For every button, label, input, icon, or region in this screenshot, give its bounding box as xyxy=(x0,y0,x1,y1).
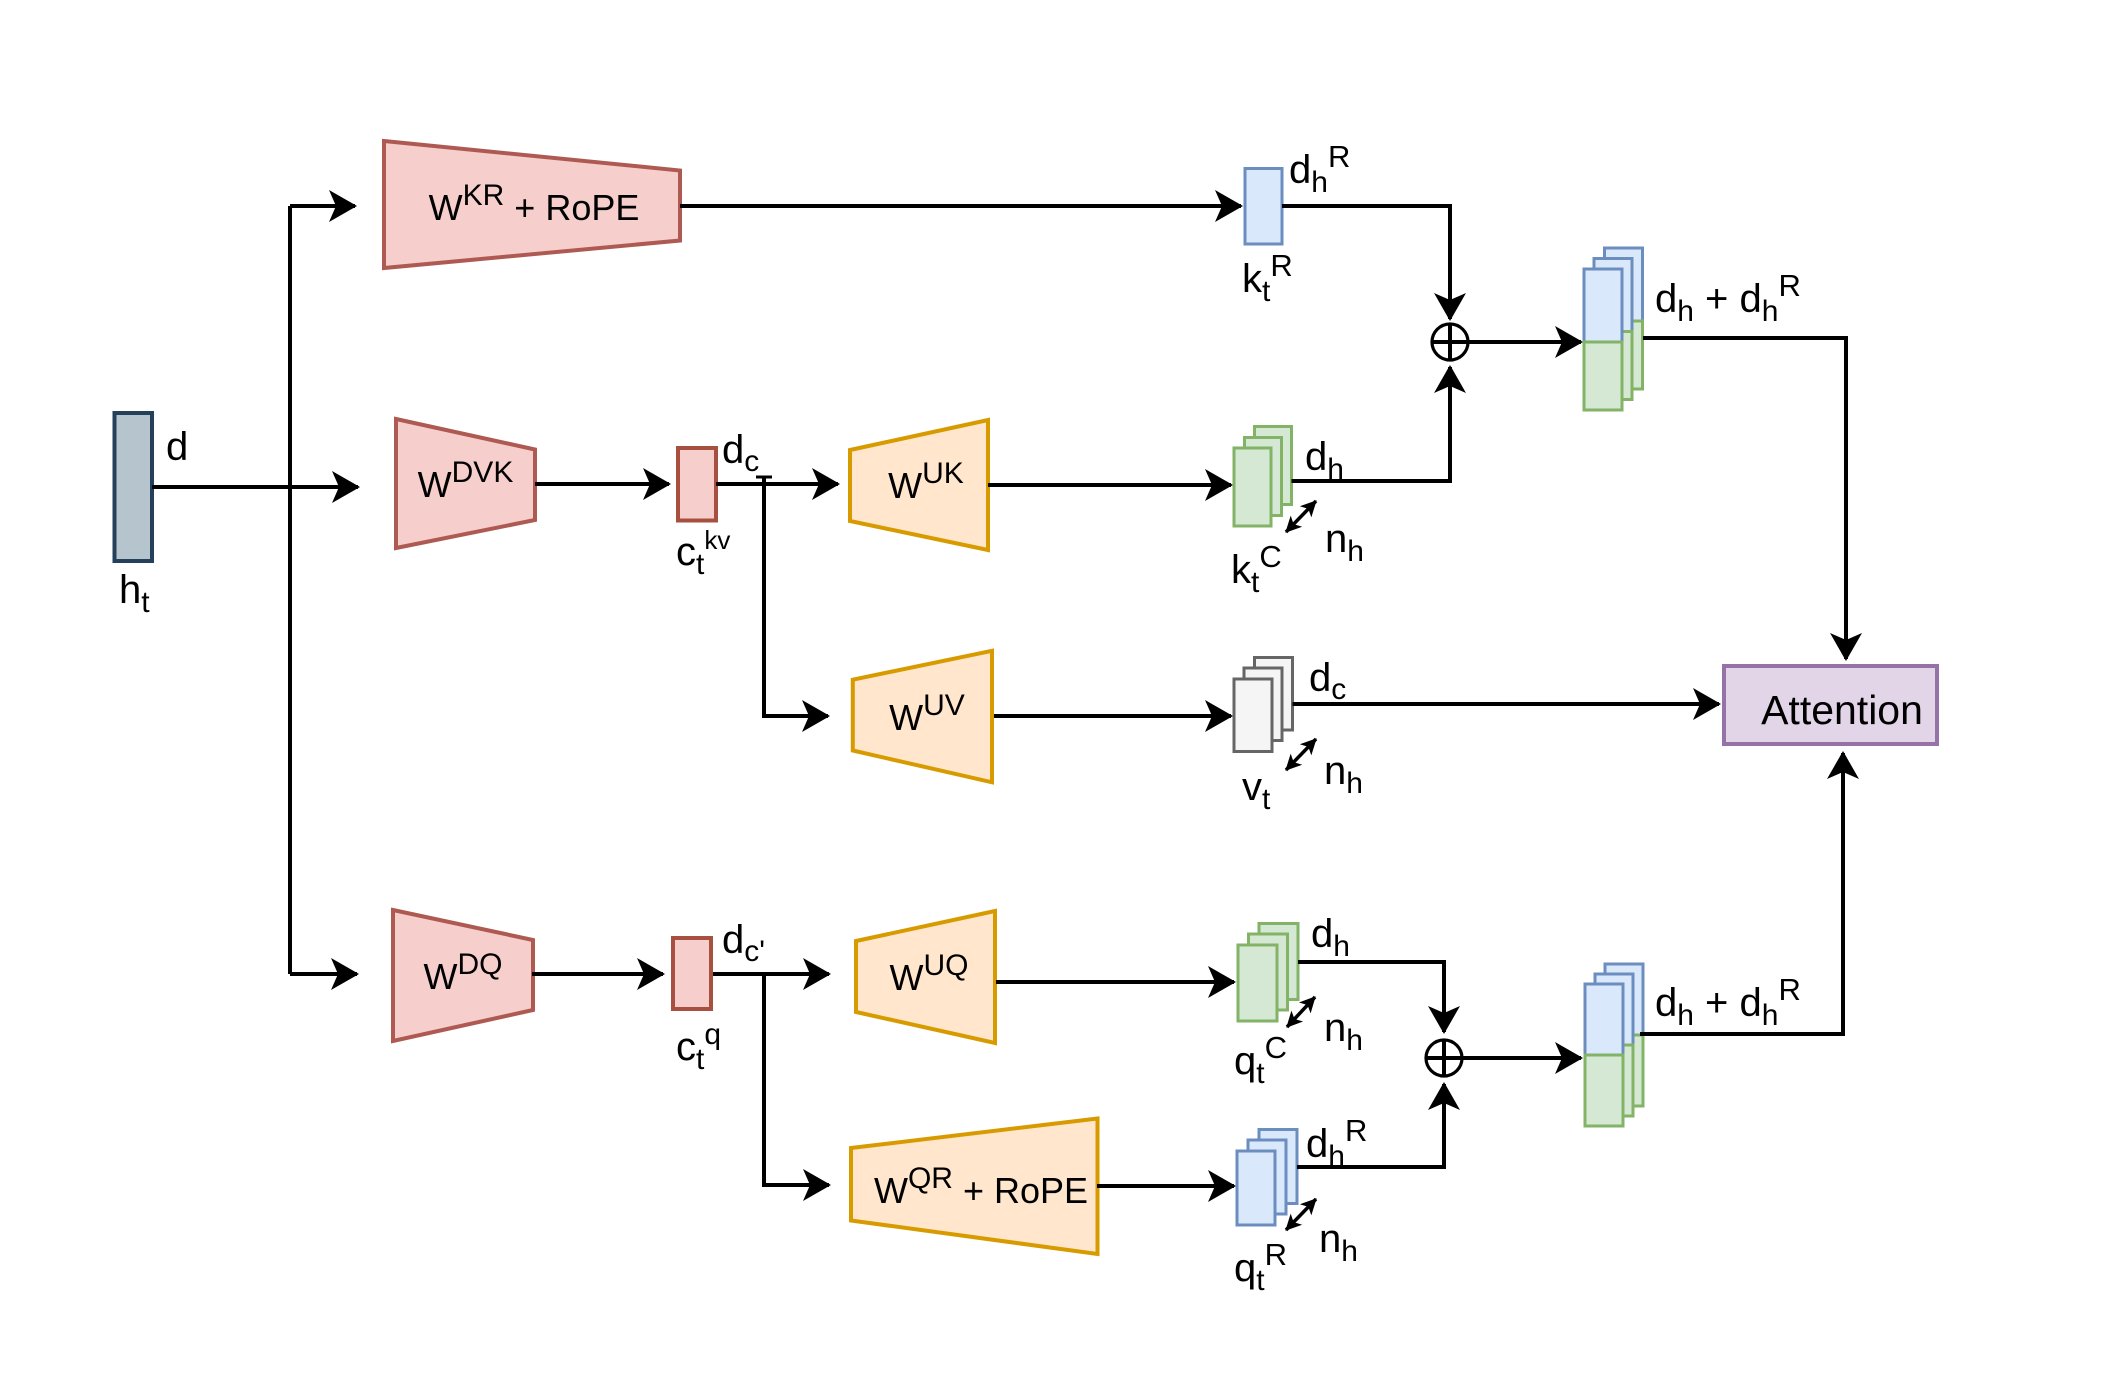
svg-text:dc: dc xyxy=(1309,656,1346,706)
svg-text:nh: nh xyxy=(1325,517,1364,568)
svg-text:WQR + RoPE: WQR + RoPE xyxy=(874,1162,1088,1211)
wire branch to W_DQ xyxy=(290,972,357,976)
block W_DVK xyxy=(396,419,535,548)
wire c_t_q to W_UQ xyxy=(711,972,829,976)
vector c_t_q xyxy=(673,938,711,1009)
svg-text:nh: nh xyxy=(1324,1006,1363,1057)
wire adder to query stack xyxy=(1462,1056,1582,1060)
svg-text:dc': dc' xyxy=(722,918,765,968)
stack concat queries (blue+green) xyxy=(1585,964,1643,1126)
svg-text:ht: ht xyxy=(119,568,150,619)
vector c_t_kv xyxy=(678,448,716,521)
block W_UQ xyxy=(856,911,995,1043)
wire W_DQ to c_t_q xyxy=(532,972,663,976)
svg-text:qtC: qtC xyxy=(1234,1030,1287,1090)
wire c_t_kv branch down to W_UV xyxy=(764,477,828,716)
wire c_t_q branch down to W_QR xyxy=(764,974,829,1185)
vector k_t_R xyxy=(1245,169,1282,245)
block W_QR + RoPE xyxy=(851,1119,1098,1255)
stack k_t_C (green) xyxy=(1234,427,1292,527)
adder (queries) xyxy=(1426,1040,1462,1076)
wire q_t_C to adder xyxy=(1298,962,1444,1032)
stack q_t_R (blue) xyxy=(1237,1130,1297,1226)
wire v_t to Attention xyxy=(1293,702,1720,706)
svg-text:WKR + RoPE: WKR + RoPE xyxy=(429,179,640,228)
wire key stack to Attention xyxy=(1643,338,1846,659)
wire W_UQ to q_t_C xyxy=(996,980,1234,984)
svg-text:ktC: ktC xyxy=(1231,539,1282,599)
block W_UK xyxy=(850,420,988,550)
wire W_DVK to c_t_kv xyxy=(535,482,669,486)
svg-text:dh: dh xyxy=(1305,435,1344,486)
wire branch to W_KR xyxy=(290,204,355,208)
block Attention xyxy=(1724,666,1937,744)
wire query stack to Attention xyxy=(1640,753,1843,1034)
svg-text:nh: nh xyxy=(1319,1217,1358,1268)
stack v_t (gray) xyxy=(1234,658,1293,752)
label n_h (keys) with size arrow xyxy=(1286,501,1316,532)
block W_KR + RoPE xyxy=(384,141,680,268)
block W_UV xyxy=(853,651,992,783)
svg-text:ctq: ctq xyxy=(676,1018,721,1076)
svg-text:qtR: qtR xyxy=(1234,1237,1287,1297)
wire W_UV to v_t xyxy=(994,714,1231,718)
svg-text:dhR: dhR xyxy=(1306,1113,1367,1173)
stack concat keys (blue+green) xyxy=(1584,248,1643,410)
svg-text:Attention: Attention xyxy=(1761,687,1923,733)
wire q_t_R to adder xyxy=(1297,1084,1444,1167)
label n_h (values) with size arrow xyxy=(1286,739,1316,770)
wire branch vertical at x=290 xyxy=(288,206,292,487)
input vector h_t xyxy=(115,413,153,561)
svg-text:ctkv: ctkv xyxy=(676,525,730,581)
wire W_KR to k_t_R xyxy=(680,204,1241,208)
wire k_t_C to adder xyxy=(1292,367,1451,481)
svg-text:ktR: ktR xyxy=(1242,248,1293,308)
svg-text:dhR: dhR xyxy=(1289,139,1350,199)
svg-text:dc: dc xyxy=(722,428,759,478)
wire adder to key stack xyxy=(1468,340,1582,344)
wire c_t_kv to W_UK xyxy=(716,482,838,486)
wire h_t to W_DVK (main horizontal) xyxy=(152,485,358,489)
svg-text:vt: vt xyxy=(1242,765,1271,816)
node branch below c_t_kv xyxy=(756,476,772,479)
svg-text:d: d xyxy=(166,425,188,469)
label n_h (rope queries) with size arrow xyxy=(1286,1199,1316,1230)
wire k_t_R to adder xyxy=(1282,206,1450,319)
wire W_UK to k_t_C xyxy=(988,483,1231,487)
stack q_t_C (green) xyxy=(1238,924,1298,1022)
svg-text:nh: nh xyxy=(1324,749,1363,800)
label n_h (queries) with size arrow xyxy=(1287,997,1315,1027)
adder (keys) xyxy=(1432,324,1468,360)
wire W_QR to q_t_R xyxy=(1097,1184,1234,1188)
svg-text:dh + dhR: dh + dhR xyxy=(1655,972,1801,1032)
svg-text:dh: dh xyxy=(1311,912,1350,963)
block W_DQ xyxy=(393,910,533,1041)
svg-text:dh + dhR: dh + dhR xyxy=(1655,268,1801,328)
